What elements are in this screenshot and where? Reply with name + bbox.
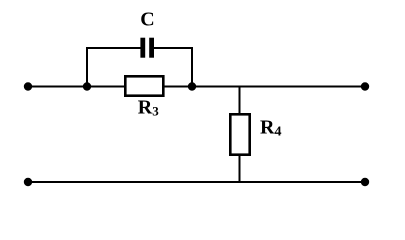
terminal dot top-left: [24, 82, 32, 90]
wire R4 vertical branch: [239, 87, 241, 183]
wire capacitor branch right riser: [191, 47, 193, 87]
resistor R3 body: [125, 76, 163, 95]
junction node dot right (C/R3 right): [188, 82, 196, 90]
wire capacitor branch top-right segment: [154, 47, 193, 49]
svg-text:C: C: [140, 9, 154, 31]
wire capacitor branch left riser: [86, 47, 88, 87]
capacitor C plates: [140, 38, 145, 58]
terminal dot top-right: [361, 82, 369, 90]
terminal dot bottom-right: [361, 178, 369, 186]
resistor R4 body: [230, 114, 249, 154]
terminal dot bottom-left: [24, 178, 32, 186]
wire capacitor branch top-left segment: [86, 47, 141, 49]
junction node dot left (C/R3 left): [83, 82, 91, 90]
wire bottom rail: [28, 181, 365, 183]
wire top rail (node between input, C/R3 branch and R4): [28, 86, 365, 88]
